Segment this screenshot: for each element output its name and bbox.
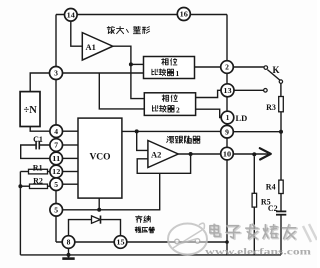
switch contact (pin2 side) <box>264 66 268 70</box>
pin 11 <box>50 152 63 165</box>
svg-text:8: 8 <box>67 238 71 247</box>
svg-text:÷N: ÷N <box>24 105 38 116</box>
svg-text:15: 15 <box>116 239 125 247</box>
switch pivot <box>279 80 282 83</box>
output arrow <box>260 148 271 159</box>
svg-text:1: 1 <box>176 69 180 78</box>
watermark (decorative) <box>168 223 317 257</box>
svg-text:2: 2 <box>225 63 229 72</box>
wire: right vertical column x=227 through pins 2,13,1,9,10 to ground rail <box>226 15 228 255</box>
label 源跟随器 <box>167 136 174 143</box>
capacitor C1 plates <box>38 141 40 150</box>
svg-text:9: 9 <box>225 127 229 136</box>
wire: divider top lead to pin3 <box>30 73 50 92</box>
phase comparator 2 box <box>144 93 195 116</box>
wire: comparator1 output to pin2 <box>195 66 221 68</box>
label 相位比较器2 <box>162 95 168 101</box>
junction A2 output node <box>189 152 193 156</box>
wire: pin2 to switch contact <box>233 66 264 68</box>
label 齐纳稳压管 (zener regulator) <box>136 216 142 223</box>
junction under VCO <box>97 208 101 212</box>
svg-text:1: 1 <box>226 113 230 122</box>
svg-text:10: 10 <box>223 150 232 158</box>
junction R1-R2 tie <box>18 184 22 188</box>
svg-text:2: 2 <box>176 105 180 114</box>
wire: zener loop from pin8 over diode to pin15 <box>69 220 121 236</box>
svg-text:R3: R3 <box>266 103 276 112</box>
pin 14 <box>65 9 78 22</box>
svg-text:LD: LD <box>236 113 248 123</box>
wire: VCO bottom stub <box>98 198 100 210</box>
junction A1 output node <box>129 62 133 66</box>
pin 2 <box>221 61 234 74</box>
wire: top rail from pin14 corner to pin16 corner <box>56 14 227 16</box>
resistor R3 <box>279 97 284 112</box>
pin 13 <box>221 84 234 97</box>
pin 5 <box>50 178 63 191</box>
resistor R4 <box>279 180 283 193</box>
svg-text:16: 16 <box>180 11 189 19</box>
pin 1 <box>221 111 234 124</box>
svg-text:7: 7 <box>54 141 58 150</box>
svg-text:www.elecfans.com: www.elecfans.com <box>205 247 311 258</box>
pin 10 <box>221 147 234 160</box>
svg-text:R2: R2 <box>33 177 43 186</box>
switch contact (pin13 side) <box>264 89 268 93</box>
pin 9 <box>221 125 234 138</box>
svg-text:14: 14 <box>67 12 76 20</box>
pin 5 (lower) <box>50 204 63 217</box>
wire: R5 column <box>253 156 255 255</box>
wire: comparator2 output to pin13 <box>196 90 222 97</box>
svg-text:R4: R4 <box>266 182 276 191</box>
wire: pin5 lower to VCO bottom and A2 loop riser <box>63 173 160 210</box>
wire: R3 column from switch pivot to R4 <box>280 83 282 180</box>
wire: R1/R2 left column down to ground rail <box>19 172 21 255</box>
svg-text:VCO: VCO <box>89 153 110 163</box>
wire: A1 output to comparator inputs <box>113 46 145 98</box>
wire: pin13 to switch contact <box>234 89 264 91</box>
pin 7 <box>50 139 63 152</box>
wire: R4 to C2 to ground rail <box>280 194 282 255</box>
svg-text:C1: C1 <box>33 135 43 144</box>
divider ÷N box <box>20 92 40 127</box>
junction pin8/ground rail <box>67 253 71 257</box>
label 相位比较器1 <box>162 58 168 64</box>
wire: VCO input line from VCO right edge to pin9 <box>122 130 221 132</box>
wire: bottom pin row 8-15 and over to right column <box>56 241 227 243</box>
capacitor C2 plates <box>276 210 286 212</box>
wire: pin8 down to ground rail <box>68 248 70 258</box>
wire: A2 feedback loop output to lower input <box>137 154 190 173</box>
svg-text:12: 12 <box>52 168 61 176</box>
wire: C1 loop pin7 to pin11 <box>21 145 50 158</box>
switch K arm <box>267 70 281 81</box>
svg-text:4: 4 <box>54 127 58 136</box>
resistor R5 <box>252 193 257 207</box>
wire: comparator2 output to pin1 <box>196 109 222 117</box>
wire: left vertical bus x=56 down through pins 3,4,7,11,12,5,5 to pin 8 row <box>55 15 57 243</box>
junction pin9 wire / R3 column <box>279 130 283 134</box>
pin 15 <box>114 236 127 249</box>
wire: branch from pin3 wire down to comparator2 lower input <box>99 73 144 109</box>
junction VCO-in / A2 branch <box>135 129 139 133</box>
ground rail (bottom common wire) <box>20 254 281 256</box>
wire: R1 leads to pin12 <box>20 171 28 173</box>
wire: R2 leads to pin5 <box>20 185 29 187</box>
ground symbol bar <box>62 257 74 260</box>
svg-text:C2: C2 <box>268 204 278 213</box>
pin 8 <box>62 236 75 249</box>
wire: pin14 stub down to A1 input <box>71 21 83 46</box>
wire: divider bottom lead to pin4 <box>30 127 50 132</box>
zener diode <box>92 216 101 223</box>
op-amp A2 (source follower) <box>148 141 178 168</box>
resistor R2 <box>30 184 48 188</box>
svg-text:3: 3 <box>54 69 58 78</box>
svg-text:K: K <box>272 65 279 75</box>
pin 16 <box>177 8 190 21</box>
resistor R1 <box>29 169 48 174</box>
wire: pin3 to comparator1 lower input <box>62 72 143 74</box>
junction pin10/R5 <box>252 152 256 156</box>
svg-text:A2: A2 <box>151 149 161 159</box>
pin 4 <box>50 125 63 138</box>
svg-text:11: 11 <box>52 155 61 163</box>
wire: VCO pin ticks 4,7,11,12,5 <box>63 130 79 132</box>
op-amp A1 (amplifier/shaper) <box>82 33 113 61</box>
wire: pin9 to R3 column <box>233 131 281 133</box>
junction pin15 wire / pin10 column <box>225 240 229 244</box>
svg-text:5: 5 <box>54 180 58 189</box>
label 放大、整形 (amplify, shaping) <box>107 26 114 33</box>
wire: pin10 to output arrow <box>233 153 268 155</box>
svg-text:A1: A1 <box>86 42 96 52</box>
VCO box <box>78 118 122 198</box>
phase comparator 1 box <box>144 57 195 79</box>
wire: branch down to A2 upper input <box>137 131 148 150</box>
wire: A2 output to pin10 <box>178 153 221 155</box>
svg-text:13: 13 <box>223 87 232 95</box>
pin 12 <box>50 165 63 178</box>
svg-text:R1: R1 <box>33 163 43 172</box>
svg-text:5: 5 <box>54 206 58 215</box>
pin 3 <box>50 67 63 80</box>
